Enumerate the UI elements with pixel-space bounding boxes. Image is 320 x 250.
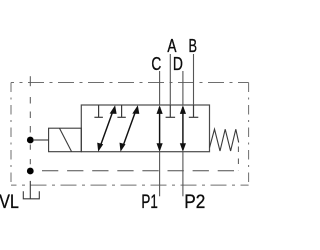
- port line A: [169, 54, 171, 105]
- blocked port T1 (left cell): [94, 105, 103, 117]
- svg-text:C: C: [151, 53, 161, 74]
- wire dot1 to solenoid: [34, 139, 49, 141]
- port line B: [193, 54, 195, 105]
- drain line vertical right (dashed): [237, 147, 239, 171]
- solenoid box: [49, 128, 82, 152]
- subplate boundary top (dash-dot): [11, 82, 249, 84]
- pilot line dashed between dots: [29, 145, 31, 168]
- subplate boundary right (dash-dot): [248, 83, 250, 186]
- VL stem: [29, 181, 31, 199]
- port line C: [159, 71, 161, 105]
- blocked port T2 (left cell): [117, 105, 125, 117]
- valve body: [81, 105, 209, 152]
- blocked port B (right cell): [189, 105, 199, 117]
- port line P1: [159, 152, 161, 197]
- spring: [210, 129, 239, 151]
- subplate boundary left (dash-dot): [10, 83, 12, 186]
- VL drain bracket: [23, 191, 39, 199]
- svg-text:P1: P1: [141, 191, 157, 213]
- solenoid diagonal: [60, 128, 72, 151]
- port line D: [182, 71, 184, 105]
- node dot 2: [27, 168, 34, 175]
- pilot line dashed upper: [29, 97, 31, 137]
- blocked port A (right cell): [166, 105, 176, 117]
- straight flow arrow C-P1 (right cell): [157, 105, 163, 152]
- drain line horizontal (dashed): [42, 170, 238, 172]
- svg-text:D: D: [173, 53, 183, 74]
- port line P2: [182, 152, 184, 197]
- svg-text:P2: P2: [184, 191, 205, 213]
- straight flow arrow D-P2 (right cell): [180, 105, 186, 152]
- svg-text:VL: VL: [0, 192, 19, 213]
- crossed flow arrow 2 (left cell): [120, 105, 140, 152]
- subplate boundary bottom (dash-dot): [11, 184, 249, 186]
- node dot 1: [27, 137, 34, 144]
- svg-text:B: B: [189, 35, 198, 56]
- crossed flow arrow 1 (left cell): [97, 105, 116, 152]
- pilot line tick at boundary: [29, 76, 31, 86]
